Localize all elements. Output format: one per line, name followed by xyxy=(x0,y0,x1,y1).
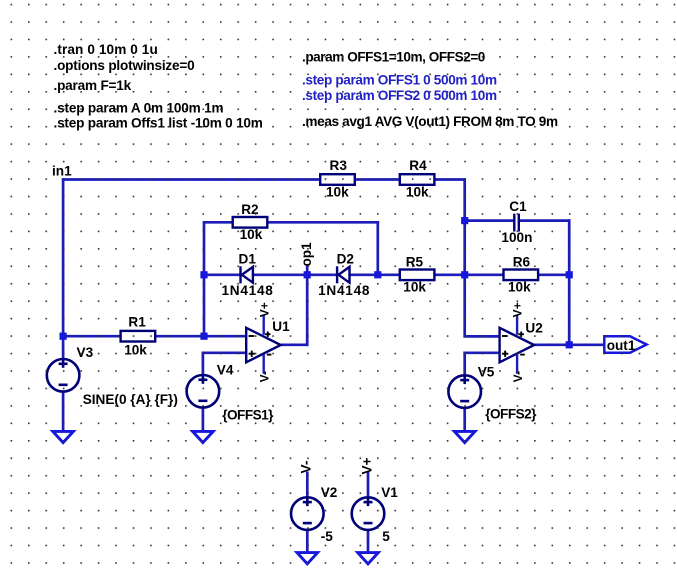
capacitor C1 plates xyxy=(514,214,519,232)
wire V5 to ground xyxy=(463,408,466,432)
node junction out1 xyxy=(566,341,573,348)
node junction R2/D1/U1- xyxy=(200,271,207,278)
ground under V2 xyxy=(297,553,318,564)
wire D2 right lead to R5 xyxy=(350,273,400,276)
wire V4 stub up xyxy=(202,352,205,376)
wire R4 corner down through C1 node to U2 minus xyxy=(463,178,466,336)
wire V3 to ground xyxy=(62,391,65,431)
wire V2 top stub xyxy=(306,472,309,498)
ground under V1 xyxy=(358,553,379,564)
wire V1 to ground xyxy=(367,530,370,553)
wire C1 right lead xyxy=(520,219,571,222)
wire node op1 vertical xyxy=(306,266,309,346)
wire V2 to ground xyxy=(306,530,309,553)
voltage source V5 xyxy=(448,375,481,408)
diode D2 xyxy=(337,266,349,283)
ground under V5 xyxy=(454,431,475,442)
wire R2 right to corner xyxy=(268,221,380,224)
wire V4 to ground xyxy=(202,407,205,431)
wire V5 to U2 plus input xyxy=(463,351,500,354)
ground under V4 xyxy=(193,431,214,442)
node junction in1/R1/V3 xyxy=(60,333,67,340)
node junction R4/C1 xyxy=(461,217,468,224)
resistor R6 body xyxy=(504,270,539,281)
node junction D2/R2/R5 xyxy=(374,271,381,278)
voltage source V1 xyxy=(352,497,385,530)
voltage source V2 xyxy=(291,497,324,530)
wire U1 output to node op1 xyxy=(280,343,309,346)
voltage source V4 xyxy=(187,375,220,408)
node junction op1 D1/D2 xyxy=(304,271,311,278)
wire V3 top lead xyxy=(62,335,65,359)
wire R1 right to U1 minus input xyxy=(155,335,246,338)
wire R6 right lead xyxy=(538,273,569,276)
wire C1 left lead xyxy=(465,219,514,222)
node junction R5/R6/U2- xyxy=(461,271,468,278)
resistor R5 body xyxy=(400,270,435,281)
wire vertical R2-right down to D2 junction xyxy=(376,221,379,275)
wire R1 left lead xyxy=(63,335,120,338)
wire V5 stub up xyxy=(463,352,466,376)
wire in1 horizontal top xyxy=(62,178,320,181)
diode D1 xyxy=(241,266,253,283)
resistor R1 body xyxy=(121,331,156,342)
wire U2 output to flag out1 xyxy=(534,343,605,346)
ground under V3 xyxy=(53,431,74,442)
op-amp U1 xyxy=(246,302,281,382)
resistor R2 body xyxy=(233,217,268,228)
wire R3 to R4 xyxy=(355,178,400,181)
resistor R3 body xyxy=(320,174,355,185)
resistor R4 body xyxy=(400,174,435,185)
wire R2 left lead xyxy=(204,221,233,224)
RESISTOR BODIES xyxy=(121,174,538,341)
wire D1 left lead xyxy=(204,273,240,276)
voltage source V3 xyxy=(47,359,80,392)
wire U2 minus input horizontal xyxy=(463,335,500,338)
wire in1 vertical left xyxy=(62,178,65,336)
wire V4 to U1 plus input xyxy=(202,351,247,354)
node junction R6/C1 right xyxy=(566,271,573,278)
GROUNDS xyxy=(53,431,475,564)
wire R5 right to R6 left xyxy=(435,273,504,276)
net flag out1 xyxy=(604,336,646,353)
wire D1 to D2 through node op1 xyxy=(253,273,336,276)
node junction R1/U1- xyxy=(200,333,207,340)
wire V1 top stub xyxy=(367,472,370,498)
op-amp U2 xyxy=(500,302,534,382)
wire R4 right to corner xyxy=(435,178,466,181)
JUNCTIONS xyxy=(60,217,573,348)
wire C1-R6 right vertical to output xyxy=(568,219,571,344)
wire vertical R2-left to U1 minus input xyxy=(203,221,206,336)
